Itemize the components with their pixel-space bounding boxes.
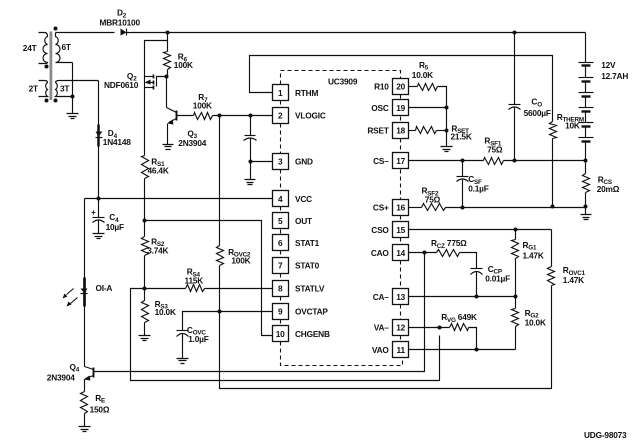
wire pin 17 CS- line xyxy=(409,160,484,162)
wire divider tap to VA- line xyxy=(131,289,440,381)
node 3T bottom junction xyxy=(71,95,75,99)
pin 9 OVCTAP xyxy=(273,304,289,320)
wire RVG to VAO line xyxy=(469,328,477,350)
wire RG1 leads xyxy=(515,230,517,240)
phase dot 6T xyxy=(54,27,58,31)
wire ROVC2 to OVCTAP xyxy=(219,266,221,312)
wire RS2 to RS3 xyxy=(144,256,146,301)
svg-text:12V: 12V xyxy=(601,60,616,70)
svg-text:1N4148: 1N4148 xyxy=(103,137,131,147)
capacitor COVC xyxy=(177,330,189,332)
resistor RS4 xyxy=(186,285,205,292)
capacitor VLOGIC bypass xyxy=(250,116,252,136)
transistor Q4 (2N3904 NPN) xyxy=(93,368,95,378)
resistor RE xyxy=(81,392,88,414)
wire pin 18 to RSET xyxy=(409,130,416,132)
wire 3T to D4 anode xyxy=(98,81,100,131)
wire battery minus to RCS xyxy=(585,161,587,174)
ground RS3 xyxy=(139,336,151,341)
wire VCC rail to opto LED xyxy=(84,199,86,284)
svg-text:10.0K: 10.0K xyxy=(155,307,176,317)
phase dot 24T xyxy=(45,65,49,69)
pin 20 R10 xyxy=(393,79,409,95)
pin 18 RSET xyxy=(393,123,409,139)
node divider tap RS2/RS3/RS4 xyxy=(143,287,147,291)
pin 17 CS– xyxy=(393,153,409,169)
svg-text:0.01µF: 0.01µF xyxy=(485,274,510,284)
svg-text:CHGENB: CHGENB xyxy=(295,329,330,339)
wire Q2 drain branch xyxy=(145,41,168,88)
wire Q4 base to pin 14 CAO net xyxy=(94,253,425,372)
svg-text:VA–: VA– xyxy=(374,323,390,333)
svg-text:17: 17 xyxy=(396,156,405,166)
svg-text:VLOGIC: VLOGIC xyxy=(295,111,326,121)
capacitor Co xyxy=(514,33,516,105)
svg-text:CS–: CS– xyxy=(373,156,389,166)
wire pin 12 to RVG xyxy=(409,327,450,329)
svg-text:CSO: CSO xyxy=(371,225,389,235)
ground RE xyxy=(79,427,91,432)
node CSO / RG1 xyxy=(514,228,518,232)
wire Q2 source to RS1 xyxy=(144,88,146,156)
wire RS4 to pin 8 STATLV xyxy=(205,288,273,290)
transformer T1 core xyxy=(50,32,53,101)
svg-text:24T: 24T xyxy=(23,43,37,53)
wire LED cathode to Q4 collector xyxy=(84,294,86,367)
svg-text:75Ω: 75Ω xyxy=(487,144,503,154)
resistor RSET xyxy=(416,127,437,134)
wire pin 15 CSO line xyxy=(409,229,552,231)
pin 7 STAT0 xyxy=(273,258,289,274)
svg-text:RTHM: RTHM xyxy=(295,88,318,98)
wire D4 cathode to VCC rail xyxy=(98,140,100,199)
svg-text:12: 12 xyxy=(396,323,405,333)
svg-text:6: 6 xyxy=(278,238,283,248)
wire CS+ line xyxy=(446,207,586,209)
pin 19 OSC xyxy=(393,100,409,116)
svg-text:9: 9 xyxy=(278,307,283,317)
node CA- / CCP xyxy=(475,295,479,299)
phase dot 2T xyxy=(45,99,49,103)
transformer secondary winding 3T xyxy=(56,81,99,97)
svg-text:OUT: OUT xyxy=(295,216,312,226)
svg-text:RSET: RSET xyxy=(367,125,388,135)
node CA- / RG1 / RG2 xyxy=(514,295,518,299)
svg-text:75Ω: 75Ω xyxy=(425,195,441,205)
resistor RCS xyxy=(583,174,590,193)
svg-text:1.47K: 1.47K xyxy=(523,251,544,261)
resistor R7 xyxy=(194,113,213,120)
svg-text:2N3904: 2N3904 xyxy=(47,372,75,382)
svg-text:10K: 10K xyxy=(565,120,580,130)
pin 8 STATLV xyxy=(273,281,289,297)
resistor RSF1 xyxy=(484,158,504,165)
wire RSET zigzag to node xyxy=(437,130,447,132)
wire Q3 collector xyxy=(166,77,168,108)
wire 6T/3T common to ground xyxy=(72,63,74,114)
svg-text:2T: 2T xyxy=(29,84,38,94)
wire Q3 base to R7 xyxy=(177,115,194,117)
svg-text:7: 7 xyxy=(278,260,283,270)
svg-text:OVCTAP: OVCTAP xyxy=(295,307,328,317)
ground C4 xyxy=(93,234,105,239)
wire RS1 to RS2 (crosses VCC rail) xyxy=(144,179,146,237)
wire RSF1 to battery minus xyxy=(504,160,586,162)
svg-text:STATLV: STATLV xyxy=(295,284,325,294)
svg-text:NDF0610: NDF0610 xyxy=(104,80,139,90)
wire tap to RS4 xyxy=(145,288,186,290)
transistor Q3 (2N3904 NPN) xyxy=(176,111,178,121)
svg-text:0.1µF: 0.1µF xyxy=(468,183,489,193)
svg-text:150Ω: 150Ω xyxy=(90,404,110,414)
resistor RCZ xyxy=(437,250,460,257)
wire R6 bottom to node xyxy=(167,70,169,77)
capacitor C4 xyxy=(98,199,100,218)
node R6 / Q2 gate / Q3 collector xyxy=(165,75,169,79)
node divider tap RS1/RS2 xyxy=(143,219,147,223)
LED OI-A xyxy=(83,278,86,307)
svg-text:11: 11 xyxy=(397,345,406,355)
ground COVC xyxy=(177,359,189,364)
node CAO / Q4 base line xyxy=(423,251,427,255)
svg-text:5600µF: 5600µF xyxy=(524,108,551,118)
wire CSO to ROVC1 xyxy=(551,230,553,267)
wire top rail left (6T output to D2 anode) xyxy=(56,32,115,34)
svg-text:10µF: 10µF xyxy=(106,222,124,232)
svg-text:2: 2 xyxy=(278,111,283,121)
svg-text:STAT1: STAT1 xyxy=(295,238,320,248)
ground RCS xyxy=(581,215,592,220)
transformer primary winding 24T xyxy=(39,33,48,64)
svg-text:VAO: VAO xyxy=(372,345,390,355)
svg-text:10.0K: 10.0K xyxy=(525,318,546,328)
wire pin 11 VAO line xyxy=(409,349,516,351)
svg-text:3: 3 xyxy=(278,156,283,166)
wire pin 13 CA- line xyxy=(409,296,516,298)
wire Q3 emitter to ground xyxy=(167,124,169,145)
resistor RG2 xyxy=(512,309,519,327)
node VLOGIC / bypass cap xyxy=(249,114,253,118)
phase dot 3T xyxy=(54,99,58,103)
pin 1 RTHM xyxy=(273,85,289,101)
wire pin3 node to ground xyxy=(250,162,252,180)
svg-text:5: 5 xyxy=(278,216,283,226)
svg-text:+: + xyxy=(91,207,96,217)
svg-text:CA–: CA– xyxy=(373,292,390,302)
pin 4 VCC xyxy=(273,191,289,207)
resistor RTHERM xyxy=(550,122,557,139)
pin 10 CHGENB xyxy=(273,326,289,342)
pin 3 GND xyxy=(273,154,289,170)
node CS- / Co xyxy=(513,159,517,163)
svg-text:18: 18 xyxy=(396,125,405,135)
wire VLOGIC to ROVC2 xyxy=(219,116,221,246)
wire RS3 to ground xyxy=(144,323,146,336)
resistor RS1 xyxy=(142,156,149,179)
node CS+ / RTHERM xyxy=(551,205,555,209)
wire RTHERM to CS+ line xyxy=(552,139,554,207)
wire R6 branch from top rail xyxy=(167,33,169,52)
wire R5 to RSET node xyxy=(438,87,447,147)
svg-text:STAT0: STAT0 xyxy=(295,260,320,270)
svg-text:GND: GND xyxy=(295,156,313,166)
svg-text:R10: R10 xyxy=(374,82,389,92)
node CS- / CSF xyxy=(461,159,465,163)
svg-text:13: 13 xyxy=(396,292,405,302)
ground transformer secondary xyxy=(67,114,79,119)
node top rail / R6 branch xyxy=(166,31,170,35)
pin 5 OUT xyxy=(273,213,289,229)
wire cap to pin 3 GND xyxy=(251,161,273,163)
svg-text:10.0K: 10.0K xyxy=(412,70,433,80)
svg-text:1.47K: 1.47K xyxy=(563,275,584,285)
resistor RVG xyxy=(450,324,469,331)
wire RG2 leads xyxy=(515,297,517,309)
battery 12V 12.7AH xyxy=(585,33,587,63)
node top rail / Co branch xyxy=(513,31,517,35)
resistor R5 xyxy=(418,84,438,91)
wire R7 to pin 2 (VLOGIC net) xyxy=(213,115,273,117)
svg-text:MBR10100: MBR10100 xyxy=(100,18,141,28)
svg-text:OI-A: OI-A xyxy=(96,283,113,293)
capacitor CSF xyxy=(462,161,464,177)
svg-text:10: 10 xyxy=(276,329,285,339)
svg-text:19: 19 xyxy=(396,103,405,113)
svg-text:4: 4 xyxy=(278,194,283,204)
resistor ROVC2 xyxy=(217,246,224,266)
capacitor CCP xyxy=(471,268,483,270)
wire pin 19 OSC xyxy=(409,107,447,109)
svg-text:2N3904: 2N3904 xyxy=(178,138,206,148)
svg-text:VCC: VCC xyxy=(295,194,312,204)
wire RE to ground xyxy=(84,414,86,427)
svg-text:14: 14 xyxy=(396,248,405,258)
node VCC rail / D4 / C4 xyxy=(97,197,101,201)
node OSC / R5 xyxy=(445,106,449,110)
transistor Q2 (NDF0610 FET) xyxy=(145,76,154,78)
pin 13 CA– xyxy=(393,289,409,305)
wire RCS to ground xyxy=(585,193,587,215)
svg-text:46.4K: 46.4K xyxy=(148,166,169,176)
pin 16 CS+ xyxy=(393,200,409,216)
resistor RG1 xyxy=(512,240,519,259)
wire pin 20 to R5 xyxy=(409,86,418,88)
svg-text:100K: 100K xyxy=(193,100,212,110)
node VA- / bottom line xyxy=(438,326,442,330)
svg-text:21.5K: 21.5K xyxy=(451,131,472,141)
ground RSET xyxy=(441,147,453,152)
svg-text:1: 1 xyxy=(278,88,283,98)
node CS+ / RCS xyxy=(584,205,588,209)
wire pin 14 to RCZ xyxy=(409,252,437,254)
wire pin 1 RTHM to RTHERM xyxy=(250,56,553,122)
pin 2 VLOGIC xyxy=(273,108,289,124)
wire divider tap to pin 10 CHGENB xyxy=(145,221,273,336)
svg-text:6T: 6T xyxy=(62,42,71,52)
svg-text:UC3909: UC3909 xyxy=(328,77,358,87)
svg-text:100K: 100K xyxy=(174,60,193,70)
svg-text:100K: 100K xyxy=(231,255,250,265)
wire top rail right (D2 cathode to battery +) xyxy=(127,32,586,34)
resistor RS2 xyxy=(142,237,149,256)
node VAO / RVG xyxy=(475,348,479,352)
resistor RSF2 xyxy=(422,204,446,211)
IC U1 UC3909 outline xyxy=(281,71,403,366)
svg-text:8: 8 xyxy=(278,284,283,294)
svg-text:115K: 115K xyxy=(185,276,204,286)
wire VCC rail xyxy=(85,198,273,200)
svg-text:20mΩ: 20mΩ xyxy=(597,184,620,194)
svg-text:16: 16 xyxy=(396,203,405,213)
resistor RS3 xyxy=(142,301,149,323)
node RSET junction xyxy=(445,129,449,133)
node GND pin / cap xyxy=(249,160,253,164)
wire pin 16 to RSF2 xyxy=(409,207,422,209)
ground Q3 emitter xyxy=(163,145,174,150)
svg-text:20: 20 xyxy=(396,82,405,92)
pin 15 CSO xyxy=(393,222,409,238)
pin 6 STAT1 xyxy=(273,235,289,251)
resistor R6 xyxy=(164,52,171,70)
wire ROVC1 to OVCTAP net xyxy=(220,286,552,389)
svg-text:1.0µF: 1.0µF xyxy=(188,334,209,344)
node CS+ / CSF xyxy=(461,206,465,210)
svg-text:3T: 3T xyxy=(60,84,69,94)
node battery minus xyxy=(584,159,588,163)
diode D2 xyxy=(121,29,127,36)
ground pin 3 xyxy=(245,180,256,185)
node VLOGIC / ROVC2 pullup xyxy=(218,114,222,118)
resistor ROVC1 xyxy=(548,267,555,286)
node OVCTAP junction xyxy=(218,310,222,314)
svg-text:3.74K: 3.74K xyxy=(147,245,168,255)
wire pin 9 OVCTAP to COVC xyxy=(183,312,273,331)
svg-text:12.7AH: 12.7AH xyxy=(601,71,628,81)
wire Q4 emitter to RE xyxy=(84,380,86,392)
svg-text:CS+: CS+ xyxy=(373,203,389,213)
wire RCZ to CCP xyxy=(460,253,477,269)
svg-text:15: 15 xyxy=(396,225,405,235)
pin 11 VAO xyxy=(393,342,409,358)
svg-text:UDG-98073: UDG-98073 xyxy=(584,430,627,440)
diode D4 xyxy=(97,125,100,147)
svg-text:OSC: OSC xyxy=(371,103,389,113)
transformer secondary winding 6T xyxy=(56,33,73,63)
transformer primary winding 2T xyxy=(39,81,48,97)
pin 14 CAO xyxy=(393,245,409,261)
svg-text:CAO: CAO xyxy=(371,248,390,258)
pin 12 VA– xyxy=(393,320,409,336)
